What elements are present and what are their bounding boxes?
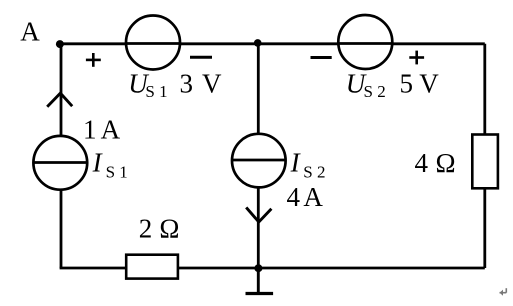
wire: right branch vertical [483, 44, 486, 268]
ground [246, 268, 274, 294]
svg-text:4Ω: 4Ω [415, 148, 456, 178]
polarity + for U_S2 [409, 51, 424, 65]
voltage source U_S2 (circle with horizontal bar) [338, 15, 392, 69]
current source I_S1 (circle with horizontal bar) [33, 136, 87, 190]
voltage source U_S1 (circle with horizontal bar) [126, 16, 180, 70]
svg-text:1A: 1A [83, 115, 121, 145]
junction dot: top middle node [254, 39, 262, 47]
svg-text:4A: 4A [287, 182, 324, 212]
wire: middle branch vertical [257, 44, 260, 268]
resistor 4 ohm (vertical box on right branch) [472, 135, 498, 189]
current direction arrow for I_S2 (down chevron) [246, 207, 271, 222]
wire: bottom rail [60, 267, 485, 270]
svg-text:2Ω: 2Ω [139, 214, 180, 244]
wire: top rail from node A to top-right corner [60, 42, 485, 45]
junction dot: bottom middle node [254, 264, 262, 272]
svg-text:A: A [20, 17, 40, 47]
current direction arrow for I_S1 (up chevron) [47, 93, 72, 107]
resistor 2 ohm (horizontal box on bottom rail) [126, 255, 178, 279]
polarity - for U_S1 [190, 56, 212, 59]
polarity + for U_S1 [86, 53, 101, 67]
paragraph return mark (gray) [500, 288, 507, 296]
polarity - for U_S2 [311, 56, 332, 59]
node A junction dot [56, 40, 64, 48]
wire: left branch vertical [60, 44, 63, 268]
current source I_S2 (circle with horizontal bar) [232, 134, 286, 188]
